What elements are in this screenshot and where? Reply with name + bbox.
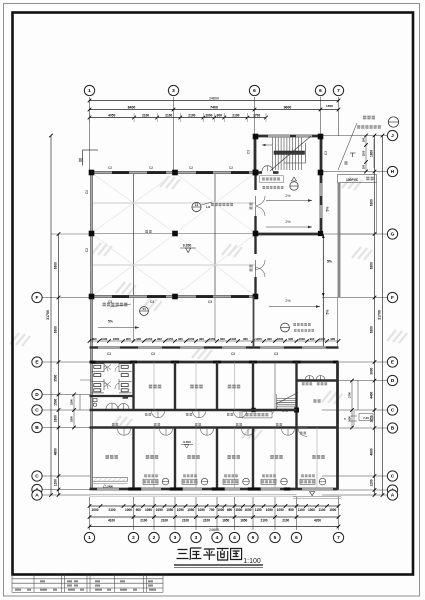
svg-text:2%: 2%	[285, 299, 291, 303]
up arrow text	[282, 409, 288, 412]
left exterior wall axis 1	[90, 172, 93, 490]
svg-text:C2: C2	[85, 190, 89, 194]
svg-text:1: 1	[88, 535, 91, 541]
toilet squat pans	[94, 365, 128, 392]
svg-text:900: 900	[199, 337, 204, 341]
svg-text:1050: 1050	[244, 508, 251, 512]
svg-text:1050: 1050	[156, 508, 163, 512]
svg-text:1000: 1000	[91, 508, 98, 512]
axis circle 3 top at x=173.5	[168, 85, 178, 95]
svg-text:C2: C2	[229, 166, 233, 170]
svg-text:C3: C3	[208, 300, 212, 304]
axis circle 5 bottom at x=275	[270, 532, 280, 542]
hall label small	[145, 230, 151, 233]
svg-text:3500: 3500	[54, 374, 58, 381]
svg-text:1050: 1050	[177, 508, 184, 512]
north terrace grid lines	[133, 297, 135, 342]
svg-text:100PVC: 100PVC	[346, 178, 359, 182]
svg-text:F: F	[36, 295, 39, 301]
FM door labels	[302, 382, 312, 385]
slope arrow line south strip	[322, 297, 324, 348]
annex bottom window	[297, 488, 338, 491]
toilet stall swing doors X pattern	[104, 365, 119, 390]
svg-text:A: A	[35, 493, 39, 499]
svg-text:2: 2	[153, 535, 156, 541]
svg-text:9.000: 9.000	[183, 440, 191, 444]
svg-text:1050: 1050	[188, 337, 195, 341]
axis circle 7 top at x=338.5	[333, 85, 343, 95]
corridor ceiling note	[242, 412, 272, 418]
axis circle A right at y=490	[387, 485, 397, 495]
svg-text:D: D	[391, 378, 395, 384]
axis circle E right at y=362	[387, 357, 397, 367]
svg-text:J: J	[391, 133, 394, 139]
svg-text:C3: C3	[324, 151, 328, 155]
door hall to terrace 2	[256, 260, 266, 270]
svg-text:5%: 5%	[326, 207, 330, 212]
svg-text:900: 900	[267, 337, 272, 341]
axis circle D right at y=380.5	[387, 375, 397, 385]
FM label	[249, 203, 252, 210]
svg-text:3000: 3000	[370, 367, 374, 374]
title underline	[174, 564, 263, 566]
stair treads upper stair	[272, 138, 301, 171]
stair handrail landing	[274, 151, 305, 154]
bottom dimension row total	[90, 526, 339, 528]
axis circle 7 bottom at x=338.5	[333, 532, 343, 542]
svg-text:C3: C3	[150, 300, 154, 304]
stair flight boundary	[284, 143, 306, 163]
svg-text:1100: 1100	[319, 508, 326, 512]
svg-text:4: 4	[233, 535, 236, 541]
left extension line y380	[80, 379, 92, 381]
bottom exterior wall	[90, 488, 297, 491]
svg-text:900: 900	[217, 114, 223, 118]
svg-text:900: 900	[126, 337, 131, 341]
PVC drain pipe note box	[338, 175, 377, 183]
corridor double doors axis B	[118, 429, 295, 436]
office labels south row	[105, 455, 117, 459]
svg-text:6: 6	[253, 88, 256, 94]
toilet lobby double doors	[106, 403, 129, 409]
svg-text:1050: 1050	[166, 508, 173, 512]
left total dimension	[50, 136, 52, 496]
annex door at axis B	[298, 428, 307, 437]
axis circle 3 bottom at x=196	[191, 532, 201, 542]
down mark	[350, 152, 356, 154]
axis circle C left at y=476	[32, 471, 42, 481]
svg-text:31700: 31700	[378, 310, 382, 320]
right axis extension lines	[322, 136, 387, 496]
svg-text:14: 14	[142, 307, 146, 311]
column at (255.5,172.5)	[253, 170, 259, 176]
left dimension chain	[58, 234, 60, 495]
annex porch lines	[293, 496, 341, 498]
corridor north wall dark chunks	[90, 346, 99, 348]
lobby mop sink + drain	[93, 399, 97, 402]
svg-text:4800: 4800	[370, 448, 374, 455]
sw office cabinet	[93, 478, 128, 482]
svg-text:D: D	[35, 392, 39, 398]
axis circle C left at y=410	[32, 405, 42, 415]
svg-text:1000: 1000	[101, 337, 108, 341]
office labels middle row	[149, 385, 161, 389]
corridor wall axis C	[90, 409, 297, 412]
svg-text:2100: 2100	[140, 519, 147, 523]
small dims right of stair bay	[365, 136, 367, 172]
svg-text:900: 900	[178, 337, 183, 341]
columns stair bay	[253, 134, 259, 140]
column at (91.5,172.5)	[89, 170, 95, 176]
svg-text:C: C	[35, 408, 39, 414]
svg-text:2100: 2100	[182, 519, 189, 523]
svg-text:6300: 6300	[54, 262, 58, 269]
svg-text:7.20: 7.20	[363, 416, 369, 420]
svg-text:1650: 1650	[222, 519, 229, 523]
svg-text:C: C	[35, 474, 39, 480]
corridor wall axis B	[90, 426, 339, 429]
svg-text:1050: 1050	[266, 508, 273, 512]
interior dim row above corridor	[90, 340, 339, 342]
svg-text:1050: 1050	[187, 508, 194, 512]
svg-text:3: 3	[174, 535, 177, 541]
svg-text:9600: 9600	[284, 105, 292, 109]
svg-text:1000: 1000	[329, 508, 336, 512]
middle row thin grid lines	[153, 362, 155, 410]
svg-text:1650: 1650	[348, 416, 352, 422]
svg-text:6300: 6300	[370, 199, 374, 206]
svg-text:1500: 1500	[70, 399, 74, 405]
wall row G terrace	[253, 233, 322, 236]
top wall dark chunks	[112, 171, 129, 174]
axis circle B left at y=427.5	[32, 422, 42, 432]
svg-text:900: 900	[330, 337, 335, 341]
svg-text:7: 7	[337, 88, 340, 94]
stairwell note box	[262, 178, 280, 181]
axis circle 2 bottom at x=154	[149, 532, 159, 542]
svg-text:3: 3	[195, 535, 198, 541]
svg-text:C2: C2	[189, 166, 193, 170]
svg-text:5%: 5%	[327, 260, 332, 264]
svg-text:31700: 31700	[46, 310, 50, 320]
stair bay door wall stubs	[256, 171, 263, 174]
stair break line	[270, 136, 311, 171]
bottom dimension row 2	[90, 516, 339, 518]
svg-text:1000: 1000	[125, 508, 132, 512]
svg-text:F: F	[391, 295, 394, 301]
bottom sill lines	[90, 494, 297, 496]
axis circle G right at y=234	[387, 229, 397, 239]
svg-text:1050: 1050	[277, 508, 284, 512]
svg-text:900: 900	[157, 337, 162, 341]
svg-text:1000: 1000	[299, 337, 306, 341]
watermark pattern	[10, 176, 407, 440]
svg-text:1150: 1150	[255, 508, 262, 512]
svg-text:Lo: Lo	[206, 205, 210, 209]
hall row G line	[92, 233, 256, 235]
svg-text:900: 900	[310, 337, 315, 341]
axis circle 4 bottom at x=217	[212, 532, 222, 542]
svg-text:2100: 2100	[165, 114, 172, 118]
column at (255.5,233.5)	[253, 231, 259, 237]
title block table	[12, 575, 163, 593]
svg-text:C3: C3	[107, 352, 111, 356]
hall east wall axis 6	[254, 175, 256, 190]
svg-text:1000: 1000	[205, 114, 212, 118]
svg-text:1800: 1800	[70, 416, 74, 422]
columns terrace east	[318, 231, 323, 236]
svg-text:900: 900	[220, 337, 225, 341]
svg-text:900: 900	[136, 337, 141, 341]
corridor north wall	[90, 346, 339, 348]
svg-text:6: 6	[319, 88, 322, 94]
svg-text:B: B	[35, 425, 39, 431]
top exterior wall axis H	[90, 171, 256, 174]
svg-text:950: 950	[288, 508, 294, 512]
column at (175,172.5)	[172, 170, 178, 176]
svg-text:1500: 1500	[54, 398, 58, 405]
svg-text:1050: 1050	[198, 508, 205, 512]
axis circle D left at y=394.5	[32, 389, 42, 399]
axis circle E left at y=362	[32, 357, 42, 367]
svg-text:4200: 4200	[314, 519, 321, 523]
axis circle 6 bottom at x=296.5	[291, 532, 301, 542]
svg-text:6: 6	[295, 535, 298, 541]
toilet bottom wall	[90, 395, 134, 397]
svg-text:9.200: 9.200	[183, 244, 192, 248]
svg-text:1200: 1200	[370, 479, 374, 486]
axis circle A left at y=489.5	[32, 484, 42, 494]
svg-text:2%: 2%	[285, 220, 291, 224]
svg-text:1800: 1800	[54, 415, 58, 422]
axis circle 1 top at x=89.5	[84, 85, 94, 95]
lobby shelf	[123, 396, 129, 398]
stair up arrow	[262, 144, 272, 146]
left axis extension lines	[42, 298, 90, 496]
detail callout circle 13	[192, 202, 201, 211]
toilet stalls	[92, 362, 132, 393]
axis circle J right at y=135.5	[387, 130, 397, 140]
axis circle F left at y=297.5	[32, 292, 42, 302]
svg-text:C2: C2	[149, 166, 153, 170]
svg-text:C: C	[391, 474, 395, 480]
svg-text:C3: C3	[247, 150, 251, 154]
column at (175,233.5)	[172, 231, 178, 237]
slope arrow line east strip G-F	[322, 234, 324, 297]
dividing wall terrace x253	[253, 297, 255, 348]
line axis 7 vertical	[338, 183, 340, 298]
leader to canopy	[338, 123, 357, 170]
svg-text:1000: 1000	[235, 508, 242, 512]
svg-text:1050: 1050	[167, 337, 174, 341]
level box right	[359, 414, 373, 421]
svg-text:2100: 2100	[260, 519, 267, 523]
top dimension row total	[90, 100, 339, 102]
axis circle 5 bottom at x=253	[248, 532, 258, 542]
svg-text:4050: 4050	[108, 114, 115, 118]
svg-text:24600: 24600	[209, 96, 219, 100]
svg-text:1050: 1050	[146, 337, 153, 341]
svg-text:750: 750	[209, 508, 215, 512]
svg-text:5: 5	[274, 535, 277, 541]
axis circle 3 bottom at x=175	[170, 532, 180, 542]
svg-text:8400: 8400	[128, 105, 136, 109]
column at (175,296.5)	[172, 294, 178, 300]
axis circle 4 bottom at x=234.5	[229, 532, 239, 542]
axis circle C right at y=410	[387, 405, 397, 415]
svg-text:1800: 1800	[277, 337, 284, 341]
left interior dims	[73, 395, 75, 428]
title block tiny text	[15, 580, 156, 590]
svg-text:C3: C3	[231, 352, 235, 356]
terrace slope note north strip	[103, 303, 128, 307]
right total dimension	[382, 136, 384, 496]
south row thin grid lines	[153, 428, 155, 490]
svg-text:900: 900	[136, 508, 142, 512]
svg-text:C: C	[391, 408, 395, 414]
svg-text:C2: C2	[85, 248, 89, 252]
svg-text:1700: 1700	[253, 114, 260, 118]
svg-text:2100: 2100	[232, 114, 239, 118]
stair bay walls	[253, 135, 322, 138]
svg-text:24600: 24600	[209, 528, 219, 532]
axis circle A right at y=495	[387, 490, 397, 500]
right dimension chain	[374, 136, 376, 496]
top dimension row 2	[90, 109, 339, 111]
Z2 beam mark top-left	[83, 149, 99, 151]
columns at stair C wall	[251, 408, 256, 413]
bottom axis extension lines	[90, 497, 339, 530]
svg-text:C3: C3	[274, 352, 278, 356]
wall row F	[90, 295, 256, 298]
svg-text:H: H	[391, 169, 395, 175]
svg-text:2100: 2100	[161, 519, 168, 523]
annex entry wall axis D with double doors	[297, 379, 338, 381]
svg-text:350: 350	[362, 137, 366, 142]
svg-text:2100: 2100	[188, 114, 195, 118]
terrace level callout	[290, 182, 298, 190]
svg-text:2100: 2100	[282, 519, 289, 523]
partition walls middle row	[132, 362, 134, 410]
svg-text:G: G	[391, 232, 395, 238]
drawing title: San Ceng Ping Mian Tu 1:100	[177, 548, 242, 560]
svg-text:1100: 1100	[298, 508, 305, 512]
axis circle 6 top at x=320.5	[315, 85, 325, 95]
right interior dims annex	[351, 381, 353, 428]
svg-text:1000: 1000	[319, 337, 326, 341]
svg-text:350: 350	[362, 164, 366, 169]
door hall to terrace 1	[256, 196, 266, 206]
left extension line G	[51, 233, 91, 235]
svg-text:7400: 7400	[210, 105, 218, 109]
corridor double doors axis C	[152, 411, 247, 418]
svg-text:2100: 2100	[142, 114, 149, 118]
lower stair break line	[276, 393, 298, 405]
svg-text:4100: 4100	[108, 519, 115, 523]
lower stair treads	[277, 399, 297, 410]
stair-room divider line	[274, 362, 276, 410]
hall roof diagonals	[92, 173, 255, 296]
top axis extension lines	[90, 97, 339, 171]
svg-text:6300: 6300	[54, 326, 58, 333]
axis circle A left at y=495	[32, 490, 42, 500]
svg-text:6300: 6300	[370, 326, 374, 333]
svg-text:1200: 1200	[362, 150, 366, 156]
svg-text:3: 3	[172, 88, 175, 94]
axis circle C right at y=476	[387, 471, 397, 481]
axis circle H right at y=171.5	[387, 166, 397, 176]
svg-text:4800: 4800	[54, 448, 58, 455]
roof callout top right	[388, 117, 398, 127]
svg-text:C3: C3	[151, 352, 155, 356]
svg-text:2700: 2700	[348, 392, 352, 398]
axis circle 6 top at x=254.5	[249, 85, 259, 95]
south office partitions	[132, 428, 134, 490]
svg-text:1650: 1650	[240, 519, 247, 523]
svg-text:1: 1	[88, 88, 91, 94]
svg-text:1050: 1050	[255, 337, 262, 341]
hall bay center grid lines	[133, 173, 135, 297]
svg-text:2%: 2%	[285, 194, 291, 198]
column at (255.5,296.5)	[253, 294, 259, 300]
svg-text:5%: 5%	[326, 310, 330, 315]
svg-text:900: 900	[288, 337, 293, 341]
svg-text:4: 4	[216, 535, 219, 541]
callout mid right	[281, 323, 290, 332]
svg-text:1800: 1800	[113, 337, 120, 341]
svg-text:1000: 1000	[217, 508, 224, 512]
svg-text:7: 7	[337, 535, 340, 541]
stair bay double door	[262, 166, 273, 172]
svg-text:1200: 1200	[54, 479, 58, 486]
svg-text:13: 13	[195, 203, 199, 207]
svg-text:4400: 4400	[370, 391, 374, 398]
annex interior label	[313, 399, 320, 402]
svg-text:2100: 2100	[108, 508, 115, 512]
top dimension row 3 small dims	[90, 117, 267, 119]
window tag annotations	[144, 474, 158, 477]
svg-text:5: 5	[252, 535, 255, 541]
svg-text:1050: 1050	[209, 337, 216, 341]
svg-text:1800: 1800	[370, 150, 374, 157]
axis circle 2 bottom at x=133.5	[128, 532, 138, 542]
svg-text:A: A	[391, 493, 395, 499]
axis circle B right at y=428	[387, 423, 397, 433]
svg-text:C2: C2	[108, 166, 112, 170]
svg-text:900: 900	[92, 337, 97, 341]
svg-text:1:100: 1:100	[243, 558, 261, 565]
svg-text:850: 850	[227, 508, 233, 512]
svg-text:1500: 1500	[326, 104, 333, 108]
entrance level triangle	[310, 492, 315, 496]
svg-text:2400: 2400	[230, 337, 237, 341]
svg-text:5%: 5%	[108, 320, 113, 324]
svg-text:2: 2	[132, 535, 135, 541]
svg-text:1050: 1050	[145, 508, 152, 512]
svg-text:B: B	[391, 426, 395, 432]
svg-text:6300: 6300	[370, 262, 374, 269]
wall axis E	[90, 361, 339, 364]
column at (91.5,233.5)	[89, 231, 95, 237]
svg-text:900: 900	[243, 337, 248, 341]
svg-text:1000: 1000	[308, 508, 315, 512]
annex right wall axis 7	[336, 362, 339, 490]
svg-text:2100: 2100	[203, 519, 210, 523]
column at (91.5,296.5)	[89, 294, 95, 300]
bottom dimension row 1	[90, 505, 339, 507]
axis circle F right at y=297.5	[387, 292, 397, 302]
svg-text:2400: 2400	[107, 486, 113, 489]
